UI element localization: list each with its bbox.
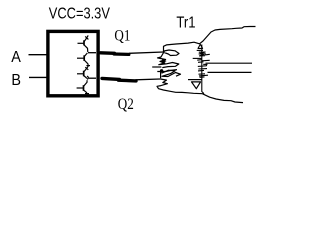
- transformer Tr1 primary winding: [152, 50, 180, 86]
- wire Q1 output junction: [88, 52, 96, 54]
- transformer Tr1 secondary winding lower scribble: [197, 60, 210, 78]
- wire transformer top lead to upper right: [164, 27, 256, 53]
- transistor T1: [78, 35, 89, 52]
- svg-text:Tr1: Tr1: [176, 15, 195, 32]
- transformer Tr1 primary winding blob: [160, 69, 163, 72]
- wire secondary tap lower: [208, 71, 252, 73]
- transistor T2: [77, 53, 90, 66]
- transformer Tr1 secondary left dash: [188, 79, 202, 81]
- wire Q1 to transformer: [129, 52, 163, 53]
- transformer Tr1 secondary winding upper scribble: [193, 50, 210, 58]
- wire Q2 output junction: [89, 77, 96, 79]
- svg-text:B: B: [11, 71, 21, 89]
- wire Q2 thick stub: [102, 78, 120, 79]
- transformer Tr1 secondary top arrowhead: [198, 44, 203, 48]
- svg-text:VCC=3.3V: VCC=3.3V: [49, 5, 111, 22]
- svg-text:Q2: Q2: [118, 96, 134, 113]
- transformer Tr1 secondary axis: [202, 45, 204, 94]
- svg-text:Q1: Q1: [114, 27, 130, 44]
- svg-text:A: A: [11, 48, 21, 66]
- transistor T3: [77, 66, 88, 78]
- wire input B: [29, 76, 48, 78]
- transformer Tr1 secondary bottom arrowhead: [192, 82, 201, 89]
- wire Q1 thick stub: [101, 51, 115, 55]
- transformer Tr1 primary winding arrowhead: [162, 59, 166, 63]
- wire input A: [29, 54, 49, 56]
- transistor T4: [77, 80, 89, 93]
- node Q2 junction bump: [87, 76, 88, 79]
- wire transformer bottom lead to lower right: [157, 86, 243, 103]
- IC U1 box: [48, 31, 98, 95]
- wire Q2 to transformer: [136, 78, 161, 81]
- wire secondary tap upper: [206, 62, 253, 64]
